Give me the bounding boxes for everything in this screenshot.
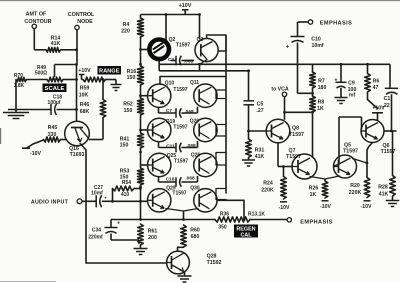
svg-text:+: + <box>334 78 337 84</box>
svg-text:500Ω: 500Ω <box>35 71 47 77</box>
svg-text:200: 200 <box>148 235 157 241</box>
svg-text:330: 330 <box>48 132 57 138</box>
svg-text:+: + <box>286 45 290 51</box>
svg-text:NODE: NODE <box>77 19 93 25</box>
svg-text:-10V: -10V <box>320 204 331 210</box>
svg-text:Q30: Q30 <box>190 186 200 192</box>
svg-text:10mf: 10mf <box>91 191 103 197</box>
svg-text:R20: R20 <box>350 183 360 189</box>
svg-text:41K: 41K <box>51 41 61 47</box>
svg-text:Q8: Q8 <box>292 126 299 132</box>
svg-text:C34: C34 <box>92 228 101 234</box>
svg-text:Q28: Q28 <box>207 254 217 260</box>
svg-text:R28: R28 <box>378 185 388 191</box>
svg-text:.068: .068 <box>184 109 194 115</box>
svg-text:T1597: T1597 <box>174 159 188 165</box>
svg-text:.22: .22 <box>382 103 389 109</box>
svg-text:-10V: -10V <box>361 204 372 210</box>
svg-text:T1597: T1597 <box>173 125 187 131</box>
svg-text:C1: C1 <box>384 96 391 102</box>
svg-text:CONTROL: CONTROL <box>68 12 95 18</box>
svg-text:T1597: T1597 <box>286 154 301 160</box>
svg-text:.27: .27 <box>256 108 263 114</box>
svg-text:C9: C9 <box>348 81 355 87</box>
svg-text:CONTOUR: CONTOUR <box>24 19 51 25</box>
svg-text:220K: 220K <box>349 190 362 196</box>
svg-text:C11: C11 <box>166 143 175 149</box>
svg-text:180: 180 <box>318 85 327 91</box>
svg-text:Q16: Q16 <box>69 146 79 152</box>
svg-text:+10V: +10V <box>78 68 91 74</box>
svg-text:1.8K: 1.8K <box>14 83 25 89</box>
svg-text:C3: C3 <box>168 57 174 63</box>
svg-text:R36: R36 <box>220 211 229 217</box>
svg-text:220K: 220K <box>261 188 274 194</box>
svg-text:R4: R4 <box>123 22 130 28</box>
svg-text:100µf: 100µf <box>48 100 61 106</box>
svg-text:EMPHASIS: EMPHASIS <box>300 219 332 225</box>
svg-text:150: 150 <box>120 143 129 149</box>
svg-text:350: 350 <box>218 225 227 231</box>
svg-text:-10V: -10V <box>30 151 41 157</box>
svg-text:C5: C5 <box>257 102 264 108</box>
svg-text:41K: 41K <box>255 154 265 160</box>
svg-text:C7: C7 <box>166 108 172 114</box>
svg-text:41K: 41K <box>379 192 389 198</box>
svg-text:Q10: Q10 <box>165 81 175 87</box>
svg-text:R61: R61 <box>148 229 158 235</box>
svg-text:R26: R26 <box>309 186 319 192</box>
svg-text:+10V: +10V <box>179 3 192 9</box>
svg-text:CAL: CAL <box>240 233 252 239</box>
svg-text:150: 150 <box>127 75 136 81</box>
svg-text:T1597: T1597 <box>343 149 358 155</box>
svg-text:to VCA: to VCA <box>271 87 289 93</box>
svg-text:R54: R54 <box>122 180 131 186</box>
svg-text:Q11: Q11 <box>190 80 199 86</box>
svg-text:R13,1K: R13,1K <box>248 211 265 217</box>
svg-text:C10: C10 <box>311 37 321 43</box>
svg-text:Q20: Q20 <box>190 119 200 125</box>
svg-text:220: 220 <box>121 29 130 35</box>
svg-text:R7: R7 <box>318 79 325 85</box>
svg-text:AUDIO INPUT: AUDIO INPUT <box>31 200 69 206</box>
svg-text:R8: R8 <box>318 100 325 106</box>
svg-text:R24: R24 <box>263 181 273 187</box>
svg-text:Q26: Q26 <box>191 153 201 159</box>
svg-text:10mf: 10mf <box>311 43 323 49</box>
svg-text:SCALE: SCALE <box>45 86 65 92</box>
svg-text:150: 150 <box>120 175 129 181</box>
svg-text:AMT OF: AMT OF <box>26 12 47 18</box>
svg-text:1K: 1K <box>317 106 324 112</box>
svg-text:C16: C16 <box>166 176 175 182</box>
svg-text:1K: 1K <box>310 192 317 198</box>
svg-text:Q3: Q3 <box>197 37 204 43</box>
svg-text:.068: .068 <box>186 143 196 149</box>
svg-text:T1597: T1597 <box>176 43 190 49</box>
svg-text:R60: R60 <box>190 228 200 234</box>
svg-text:R70: R70 <box>14 73 23 79</box>
svg-text:R59: R59 <box>80 86 90 92</box>
svg-text:-10V: -10V <box>279 205 290 211</box>
svg-text:T1597: T1597 <box>289 132 304 138</box>
svg-text:T1597: T1597 <box>172 191 186 197</box>
svg-text:.068: .068 <box>185 176 195 182</box>
svg-text:Q2: Q2 <box>169 37 176 43</box>
svg-text:R46: R46 <box>80 102 90 108</box>
svg-text:68K: 68K <box>80 109 90 115</box>
svg-text:EMPHASIS: EMPHASIS <box>320 21 352 27</box>
svg-text:680: 680 <box>191 234 200 240</box>
svg-text:T1592: T1592 <box>207 260 222 266</box>
svg-text:T1597: T1597 <box>173 87 187 93</box>
svg-text:T1693: T1693 <box>70 152 85 158</box>
svg-text:RANGE: RANGE <box>99 68 120 74</box>
svg-text:R6: R6 <box>373 79 380 85</box>
svg-text:R45: R45 <box>48 125 58 131</box>
svg-text:+: + <box>104 196 107 201</box>
svg-text:220mf: 220mf <box>88 235 103 241</box>
svg-text:+: + <box>117 221 120 227</box>
svg-text:mf: mf <box>349 93 356 99</box>
svg-text:150: 150 <box>124 108 133 114</box>
svg-text:R52: R52 <box>123 102 133 108</box>
svg-text:10K: 10K <box>79 93 89 99</box>
svg-text:47: 47 <box>373 85 379 91</box>
svg-text:410: 410 <box>121 192 130 198</box>
svg-text:.068: .068 <box>184 58 194 64</box>
svg-text:R31: R31 <box>255 148 265 154</box>
